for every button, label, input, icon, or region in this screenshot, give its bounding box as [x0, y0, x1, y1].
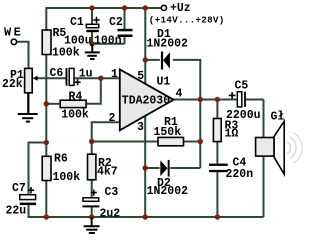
svg-text:+Uz: +Uz	[170, 2, 191, 15]
wire P1 bottom lead	[28, 93, 30, 113]
wire C7 bottom lead	[28, 205, 30, 218]
junction rail ground	[89, 214, 94, 219]
wire D2 cathode lead	[170, 167, 200, 169]
wire D1 cathode lead	[145, 59, 160, 61]
svg-text:3: 3	[137, 121, 144, 134]
svg-text:22u: 22u	[6, 204, 27, 217]
svg-text:C7: C7	[12, 182, 26, 195]
wire R1 left lead	[92, 141, 158, 143]
wire ground bus C1-C2	[92, 43, 125, 45]
junction supply tap	[143, 5, 148, 10]
junction C7 divider node	[44, 140, 49, 145]
terminal WE	[11, 39, 16, 44]
speaker Gl	[256, 121, 303, 174]
resistor R1	[158, 137, 184, 145]
junction rail pin3	[143, 214, 148, 219]
capacitor C1	[86, 17, 100, 33]
svg-text:2u2: 2u2	[100, 207, 121, 220]
wire C2 bottom lead	[124, 37, 126, 44]
junction rail C4	[215, 214, 220, 219]
svg-text:100k: 100k	[52, 47, 80, 60]
diode D2	[160, 160, 169, 177]
wire C4 bottom lead	[216, 172, 218, 217]
svg-text:C3: C3	[105, 186, 119, 199]
junction D2 anode node	[143, 165, 148, 170]
wire divider vertical R5-R6	[45, 55, 47, 157]
resistor R6	[42, 156, 51, 180]
wire C1 bottom lead	[91, 32, 93, 44]
op-amp U1 TDA2030	[120, 69, 174, 130]
junction R1 output node	[198, 139, 203, 144]
ground under P1	[18, 93, 38, 122]
svg-text:4: 4	[176, 87, 183, 100]
svg-text:1N2002: 1N2002	[147, 185, 189, 198]
junction pin 2 feedback node	[89, 139, 94, 144]
svg-text:R6: R6	[54, 152, 68, 165]
wire pin 3 to ground rail	[144, 116, 146, 217]
wire divider node to C7	[29, 143, 47, 195]
junction rail R6	[44, 214, 49, 219]
svg-text:(+14V...+28V): (+14V...+28V)	[149, 14, 225, 25]
wire supply to pin 5	[144, 7, 146, 84]
junction D1 cathode node	[143, 57, 148, 62]
diode D1	[161, 52, 170, 70]
wire R2 to C3	[91, 180, 93, 198]
wire pin1 node down to R4	[86, 78, 101, 104]
resistor R5	[42, 30, 51, 55]
junction supply C2	[122, 5, 127, 10]
svg-text:150k: 150k	[154, 126, 182, 139]
wire D2 anode lead	[145, 167, 159, 169]
svg-text:1u: 1u	[79, 67, 93, 80]
svg-text:100k: 100k	[61, 108, 89, 121]
svg-text:2: 2	[109, 112, 116, 125]
resistor R2	[88, 154, 96, 180]
wire R3 to C4	[216, 142, 218, 164]
svg-text:1: 1	[111, 68, 118, 81]
wire output pin4 to C5	[173, 99, 237, 101]
capacitor C5	[229, 92, 246, 107]
svg-text:C5: C5	[235, 79, 249, 92]
wire C3 bottom lead	[91, 207, 93, 217]
wire R4 left lead	[46, 103, 60, 105]
wire P1 wiper to C6	[36, 77, 66, 79]
wire R5 top lead	[45, 7, 47, 30]
junction output D1	[198, 97, 203, 102]
svg-text:4k7: 4k7	[97, 166, 118, 179]
svg-text:C1: C1	[70, 16, 84, 29]
wire C6 to pin 1	[74, 77, 120, 79]
junction pin 1 node	[98, 76, 103, 81]
junction R4 divider node	[44, 101, 49, 106]
wire speaker bottom lead	[263, 156, 265, 217]
resistor R4	[60, 100, 86, 107]
wire R1 right lead	[184, 141, 201, 143]
svg-text:220n: 220n	[226, 168, 254, 181]
wire bottom ground rail	[29, 216, 264, 218]
wire C2 top lead	[124, 8, 126, 29]
svg-text:C6: C6	[50, 67, 64, 80]
ground under C1 C2	[85, 44, 100, 59]
wire R3 top lead	[216, 100, 218, 119]
junction supply C1	[89, 5, 94, 10]
terminal +Uz	[161, 5, 166, 10]
junction output R3	[215, 97, 220, 102]
svg-text:100u: 100u	[64, 34, 92, 47]
wire speaker top lead	[263, 100, 265, 138]
ground at bottom rail	[84, 217, 100, 233]
wire pin 2 to R2	[92, 122, 120, 154]
svg-text:100k: 100k	[53, 171, 81, 184]
svg-text:100n: 100n	[94, 34, 122, 47]
wire D1 anode lead to output	[173, 60, 201, 100]
capacitor C7	[20, 187, 36, 205]
resistor R3	[213, 119, 221, 142]
svg-text:1N2002: 1N2002	[147, 37, 189, 50]
potentiometer P1	[25, 68, 38, 92]
wire C1 top lead	[91, 8, 93, 24]
wire output auxiliary vertical	[199, 100, 201, 169]
svg-text:WE: WE	[4, 25, 23, 39]
svg-text:Gł: Gł	[271, 110, 285, 123]
svg-text:5: 5	[137, 70, 144, 83]
svg-text:C2: C2	[109, 16, 123, 29]
svg-text:TDA2030: TDA2030	[122, 95, 170, 108]
capacitor C2	[118, 29, 133, 37]
capacitor C6	[66, 68, 81, 86]
capacitor C4	[209, 164, 228, 173]
wire WE input to P1	[17, 42, 29, 69]
svg-text:R4: R4	[69, 90, 83, 103]
svg-text:1Ω: 1Ω	[225, 127, 239, 140]
wire R6 bottom lead	[45, 181, 47, 219]
junction C1-C2 ground bus	[89, 41, 94, 46]
wire C5 to speaker	[245, 99, 263, 101]
svg-text:22k: 22k	[2, 78, 23, 91]
svg-text:U1: U1	[157, 76, 171, 89]
capacitor C3	[83, 190, 100, 208]
wire top supply rail	[46, 7, 161, 9]
